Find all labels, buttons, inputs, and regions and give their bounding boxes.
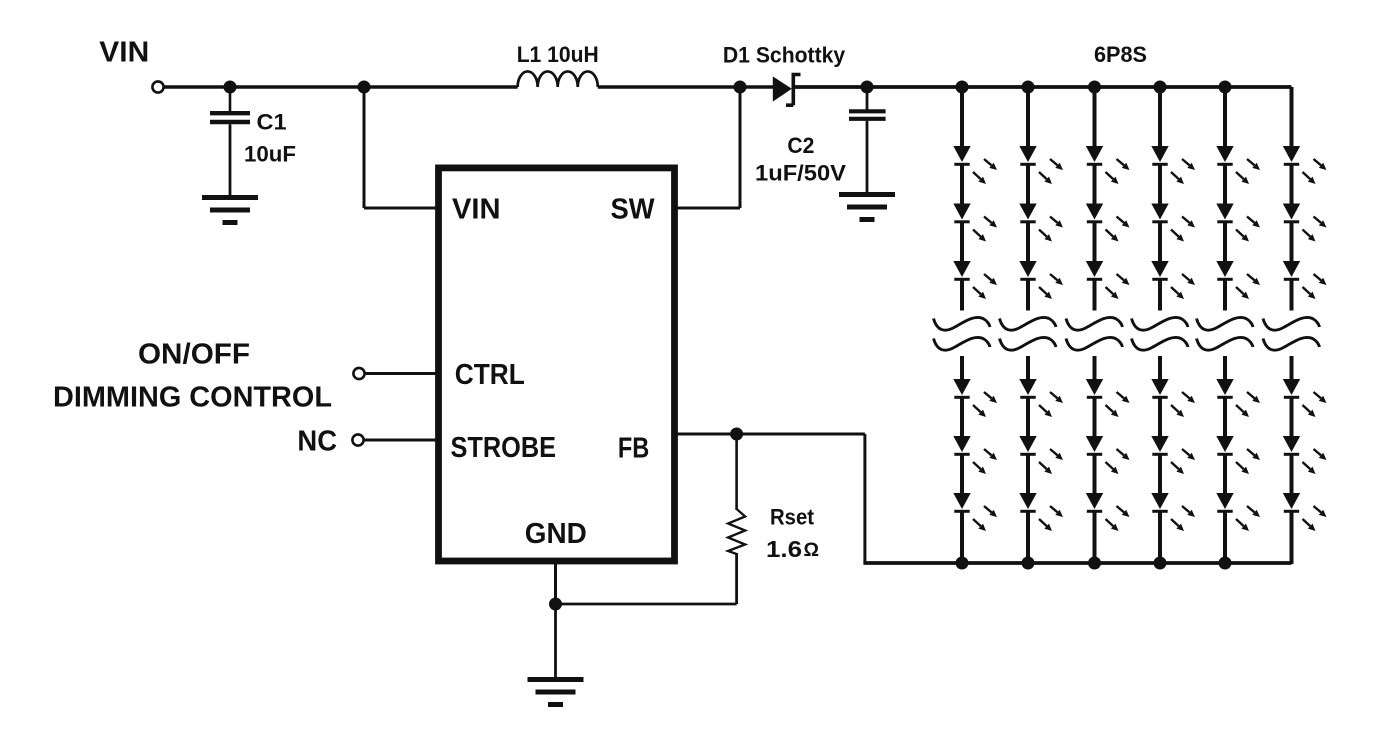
svg-text:ON/OFF: ON/OFF bbox=[138, 339, 250, 371]
terminal STROBE input NC bbox=[352, 434, 363, 445]
wire top rail: VIN terminal to inductor L1 bbox=[164, 85, 518, 88]
node junction top rail LED column x=1094 bbox=[1088, 81, 1101, 94]
LED string 4 break marks bbox=[1132, 317, 1189, 350]
LED string 1 (8 series LEDs) bbox=[953, 87, 997, 564]
wire FB pin to Rset junction and LED return bbox=[675, 433, 865, 436]
wire U1 GND pin down bbox=[554, 561, 557, 604]
ground at C2 bbox=[839, 192, 895, 222]
wire Rset bottom to GND node bbox=[556, 603, 737, 606]
node junction FB / Rset bbox=[730, 428, 743, 441]
svg-text:STROBE: STROBE bbox=[451, 432, 557, 464]
inductor L1 bbox=[518, 71, 598, 87]
svg-text:NC: NC bbox=[297, 426, 337, 458]
node junction bottom rail LED column x=1094 bbox=[1088, 557, 1101, 570]
LED string 3 break marks bbox=[1066, 317, 1123, 350]
svg-text:6P8S: 6P8S bbox=[1094, 42, 1147, 67]
svg-text:DIMMING CONTROL: DIMMING CONTROL bbox=[53, 382, 332, 414]
LED string 1 break marks bbox=[934, 317, 991, 350]
terminal CTRL input bbox=[353, 368, 364, 379]
node junction GND bbox=[549, 598, 562, 611]
capacitor C2 bbox=[849, 111, 886, 119]
ground main bbox=[528, 677, 584, 707]
wire bottom return rail bbox=[863, 561, 1291, 565]
resistor Rset bbox=[728, 509, 745, 554]
svg-text:1uF/50V: 1uF/50V bbox=[755, 161, 846, 186]
node junction top rail LED column x=962 bbox=[956, 81, 969, 94]
IC U1 boost LED driver bbox=[439, 168, 675, 561]
node junction top rail LED column x=1225 bbox=[1219, 81, 1232, 94]
node junction bottom rail LED column x=1225 bbox=[1219, 557, 1232, 570]
wire from top rail down to U1 VIN pin bbox=[363, 87, 366, 208]
capacitor C1 bbox=[210, 113, 250, 122]
svg-text:C2: C2 bbox=[787, 133, 814, 158]
LED string 2 break marks bbox=[1000, 317, 1057, 350]
node junction bottom rail LED column x=1028 bbox=[1022, 557, 1035, 570]
svg-text:C1: C1 bbox=[257, 110, 287, 135]
svg-text:L1 10uH: L1 10uH bbox=[517, 42, 599, 67]
svg-text:Rset: Rset bbox=[770, 505, 815, 530]
node junction at C2 tap bbox=[861, 81, 874, 94]
wire C1 top stub bbox=[229, 87, 232, 112]
LED string 6 break marks bbox=[1263, 317, 1320, 350]
wire C2 bottom stub bbox=[866, 121, 869, 193]
LED string 2 (8 series LEDs) bbox=[1019, 87, 1063, 564]
svg-text:GND: GND bbox=[525, 518, 587, 550]
wire top rail: L1 to D1 bbox=[598, 85, 774, 89]
node junction bottom rail LED column x=962 bbox=[956, 557, 969, 570]
node junction at U1 VIN tap bbox=[358, 81, 371, 94]
wire LED return drop bbox=[863, 434, 866, 563]
svg-text:SW: SW bbox=[611, 194, 656, 226]
wire GND node to ground symbol bbox=[554, 604, 557, 678]
svg-text:CTRL: CTRL bbox=[455, 359, 525, 391]
svg-text:10uF: 10uF bbox=[244, 142, 296, 167]
node junction at SW tap bbox=[734, 81, 747, 94]
wire C2 top stub bbox=[866, 87, 869, 111]
ground at C1 bbox=[202, 195, 258, 225]
LED string 5 (8 series LEDs) bbox=[1216, 87, 1260, 564]
LED string 6 (8 series LEDs) bbox=[1283, 87, 1327, 564]
node junction at C1 tap bbox=[224, 81, 237, 94]
svg-text:1.6: 1.6 bbox=[766, 536, 802, 562]
LED string 4 (8 series LEDs) bbox=[1151, 87, 1195, 564]
node junction top rail LED column x=1160 bbox=[1154, 81, 1167, 94]
svg-text:VIN: VIN bbox=[452, 194, 501, 226]
wire C1 bottom stub bbox=[229, 124, 232, 196]
LED string 3 (8 series LEDs) bbox=[1086, 87, 1130, 564]
node junction bottom rail LED column x=1160 bbox=[1154, 557, 1167, 570]
diode D1 Schottky bbox=[773, 75, 801, 106]
LED string 5 break marks bbox=[1197, 317, 1254, 350]
node junction top rail LED column x=1028 bbox=[1022, 81, 1035, 94]
svg-text:Ω: Ω bbox=[804, 540, 820, 561]
wire STROBE terminal to U1 bbox=[364, 439, 439, 442]
wire Rset bottom stub bbox=[735, 553, 738, 604]
svg-text:VIN: VIN bbox=[99, 37, 149, 69]
svg-text:D1 Schottky: D1 Schottky bbox=[723, 43, 846, 68]
wire SW pin up to top rail bbox=[675, 207, 741, 210]
wire CTRL terminal to U1 bbox=[365, 372, 439, 375]
svg-text:FB: FB bbox=[618, 433, 649, 465]
terminal input VIN bbox=[152, 81, 163, 92]
wire top rail: D1 to LED array corner bbox=[795, 85, 1292, 89]
wire Rset top stub bbox=[735, 434, 738, 510]
